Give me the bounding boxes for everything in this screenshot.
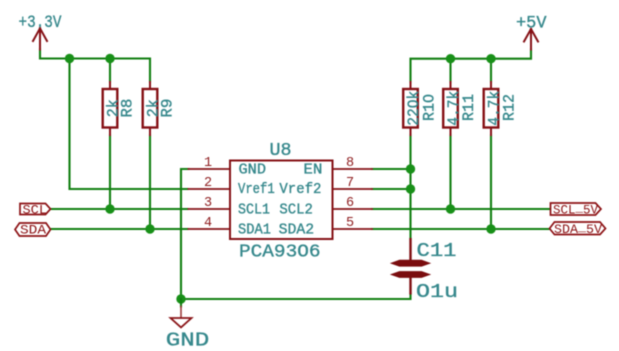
op-amp U8 PCA9306 body xyxy=(230,141,333,262)
svg-text:SDA1: SDA1 xyxy=(238,223,271,239)
svg-text:SCL_5V: SCL_5V xyxy=(553,200,598,217)
node SCL label xyxy=(20,202,51,217)
ground symbol GND xyxy=(166,299,210,351)
node SCL_5V label xyxy=(551,200,602,217)
svg-text:GND: GND xyxy=(239,163,267,179)
resistor R9 xyxy=(143,82,177,135)
resistor R12 xyxy=(484,82,519,135)
wire GND net bottom to C11 xyxy=(181,294,411,299)
power symbol +5V arrow xyxy=(524,29,538,50)
svg-text:R9: R9 xyxy=(159,99,177,118)
capacitor C11 xyxy=(391,238,458,303)
svg-text:C11: C11 xyxy=(417,240,457,262)
junction R12 top xyxy=(486,54,495,63)
svg-text:U8: U8 xyxy=(270,141,292,161)
pin 1 GND stub xyxy=(189,168,231,170)
wire SCL_5V net xyxy=(372,208,550,210)
junction R8/SCL xyxy=(105,204,114,213)
svg-text:+5V: +5V xyxy=(516,14,547,34)
wire +5V rail top-right xyxy=(411,50,532,83)
svg-text:SDA: SDA xyxy=(20,223,46,238)
resistor R10 xyxy=(403,82,438,135)
wire pin8 to EN net xyxy=(372,168,411,170)
svg-text:Vref2: Vref2 xyxy=(279,182,321,198)
junction R11 top xyxy=(446,54,455,63)
svg-text:3: 3 xyxy=(204,196,212,211)
svg-text:EN: EN xyxy=(303,163,322,179)
wire pin7 to Vref2 net xyxy=(372,188,411,190)
wire R11 bottom to SCL2 xyxy=(449,135,451,209)
svg-text:O1u: O1u xyxy=(416,281,458,303)
svg-text:SCL: SCL xyxy=(23,202,48,217)
node SDA_5V label xyxy=(550,220,606,237)
svg-text:R8: R8 xyxy=(119,99,137,118)
wire R11 top drop xyxy=(449,59,451,82)
pin 5 SDA2 stub xyxy=(333,228,373,230)
svg-text:6: 6 xyxy=(346,196,354,211)
wire SCL net xyxy=(50,208,188,210)
pin 7 Vref2 stub xyxy=(333,188,373,190)
junction R12/SDA_5V xyxy=(486,224,495,233)
svg-text:7: 7 xyxy=(346,176,354,191)
svg-text:SCL2: SCL2 xyxy=(279,202,313,218)
junction at R8 top xyxy=(105,54,114,63)
junction at +3.3V rail left xyxy=(65,54,74,63)
wire R9 bottom to SDA xyxy=(149,135,151,229)
junction Vref2/R10 xyxy=(406,184,415,193)
pin 2 Vref1 stub xyxy=(189,188,231,190)
junction R9/SDA xyxy=(145,224,154,233)
svg-text:SDA_5V: SDA_5V xyxy=(554,220,602,237)
wire SDA net xyxy=(51,228,188,230)
svg-text:R12: R12 xyxy=(501,94,519,121)
wire R10 bottom to C11 top xyxy=(409,135,411,239)
svg-text:2: 2 xyxy=(204,176,212,191)
wire R12 top drop xyxy=(490,59,492,82)
svg-text:+3.3V: +3.3V xyxy=(19,13,62,33)
svg-text:SDA2: SDA2 xyxy=(279,223,315,239)
pin 3 SCL1 stub xyxy=(189,208,231,210)
pin 8 EN stub xyxy=(333,168,373,170)
resistor R8 xyxy=(103,82,137,135)
wire R8 bottom to SCL xyxy=(109,135,111,209)
svg-text:R11: R11 xyxy=(460,94,478,121)
wire R12 bottom to SDA2 xyxy=(490,135,492,229)
svg-text:8: 8 xyxy=(346,156,354,171)
pin 4 SDA1 stub xyxy=(189,228,231,230)
wire GND net pin1 down xyxy=(181,169,189,299)
wire Vref1 net xyxy=(70,59,188,190)
svg-text:5: 5 xyxy=(346,216,354,231)
power symbol +3.3V arrow xyxy=(33,28,47,49)
svg-text:SCL1: SCL1 xyxy=(238,202,270,218)
wire +3.3V rail top-left xyxy=(40,49,150,82)
svg-text:1: 1 xyxy=(204,156,212,171)
node SDA label xyxy=(15,223,51,238)
junction GND xyxy=(176,294,185,303)
wire R8 top drop xyxy=(109,59,111,83)
svg-text:Vref1: Vref1 xyxy=(238,182,275,198)
svg-text:PCA93O6: PCA93O6 xyxy=(239,241,321,262)
svg-text:R1O: R1O xyxy=(421,94,439,121)
junction EN/R10 xyxy=(406,164,415,173)
svg-text:4: 4 xyxy=(204,216,212,231)
junction R11/SCL_5V xyxy=(446,204,455,213)
pin 6 SCL2 stub xyxy=(333,208,373,210)
wire SDA_5V net xyxy=(372,228,549,230)
resistor R11 xyxy=(443,82,478,135)
svg-text:GND: GND xyxy=(166,330,210,351)
